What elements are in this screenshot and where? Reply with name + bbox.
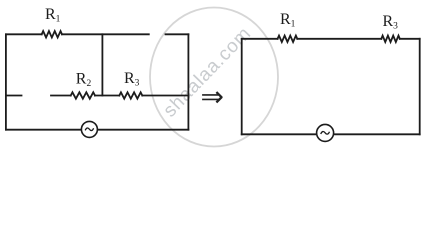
resistor R2 (left circuit) bbox=[71, 92, 95, 98]
wire: top segment R1 to gap bbox=[62, 33, 149, 35]
svg-text:R1: R1 bbox=[280, 11, 296, 30]
right circuit bbox=[242, 36, 420, 135]
resistor R1 (right circuit) bbox=[278, 36, 298, 42]
wire: right vertical (left circuit) bbox=[187, 34, 189, 129]
wire: top right segment after gap bbox=[166, 33, 189, 35]
wire: left vertical (right circuit) bbox=[241, 39, 243, 135]
wire: bottom left segment (right circuit) bbox=[242, 133, 316, 135]
wire: top left segment to R1 bbox=[6, 33, 42, 35]
wire: bottom right segment (left circuit) bbox=[98, 129, 188, 131]
wire: junction vertical from top wire bbox=[101, 34, 103, 95]
wire: right vertical (right circuit) bbox=[419, 39, 421, 135]
wire: middle segment R3 to right vertical bbox=[142, 95, 188, 97]
wire: middle segment to R2 bbox=[51, 95, 71, 97]
resistor R3 (left circuit) bbox=[119, 92, 142, 98]
svg-text:R2: R2 bbox=[76, 70, 92, 89]
svg-text:R1: R1 bbox=[45, 6, 61, 25]
wire: middle segment R2 to junction bbox=[95, 95, 119, 97]
wire: left vertical (left circuit) bbox=[5, 34, 7, 129]
watermark circle bbox=[150, 8, 278, 147]
resistor R1 (left circuit) bbox=[42, 31, 62, 37]
AC source (left circuit) bbox=[81, 121, 97, 137]
wire: bottom left segment (left circuit) bbox=[6, 129, 81, 131]
wire: middle stub from left vertical bbox=[6, 95, 22, 97]
AC source (right circuit) bbox=[317, 124, 334, 141]
svg-text:R3: R3 bbox=[124, 70, 140, 89]
wire: top segment to R1 (right circuit) bbox=[242, 38, 278, 40]
resistor R3 (right circuit) bbox=[381, 36, 400, 42]
left circuit bbox=[6, 31, 189, 130]
wire: bottom right segment (right circuit) bbox=[334, 133, 419, 135]
wire: top right segment (right circuit) bbox=[400, 38, 420, 40]
svg-text:R3: R3 bbox=[383, 13, 399, 32]
svg-text:⇒: ⇒ bbox=[201, 82, 224, 113]
wire: top middle segment (right circuit) bbox=[297, 38, 381, 40]
